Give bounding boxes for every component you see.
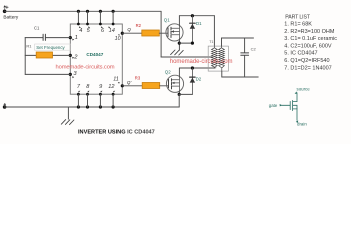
svg-text:11: 11 (113, 77, 119, 83)
wire: secondary top terminal (221, 38, 223, 46)
set frequency frame (35, 44, 71, 50)
battery negative terminal (3, 105, 7, 109)
node: rail junction pin12 (112, 105, 115, 108)
node: pin8 at IC edge (86, 93, 89, 96)
wire: Q2 source row to D2 (179, 93, 192, 95)
svg-text:C2: C2 (251, 46, 257, 51)
pin number 7 (77, 84, 81, 93)
transistor Q2 (IRF540) (166, 75, 183, 92)
part list (284, 14, 337, 71)
pin number 10 (115, 34, 121, 42)
wire: pin3 row (25, 73, 70, 75)
pinout body tap (293, 105, 297, 109)
wire: 0V rail (5, 106, 180, 108)
capacitor C2 (241, 53, 249, 55)
wire: Q' output row pin11 to R3 (122, 85, 142, 87)
node: D1 top junction (191, 14, 194, 17)
wire: R1 row left segment (25, 54, 36, 56)
svg-text:D1: D1 (196, 21, 202, 26)
svg-text:source: source (297, 87, 311, 92)
wire: pin 7 stub (77, 94, 79, 107)
pinout gate wire (282, 104, 291, 106)
node: pin6 at IC edge (99, 23, 102, 26)
svg-text:R3: R3 (135, 76, 141, 81)
ground (0V rail) (61, 120, 74, 125)
pinout drain label (296, 120, 308, 126)
svg-text:2. R2=R3=100 OHM: 2. R2=R3=100 OHM (284, 29, 335, 35)
node: pin14 at IC edge (112, 23, 115, 26)
pin number 11 (113, 77, 120, 84)
wire: Q output row pin10 to R2 (122, 32, 142, 34)
pin number 4 (79, 26, 83, 34)
wire: output bottom row (222, 76, 258, 78)
node: pin10 (121, 32, 124, 35)
node: D1 bottom junction (191, 42, 194, 45)
svg-text:5: 5 (87, 28, 91, 34)
resistor R1 (36, 52, 52, 58)
svg-text:1: 1 (75, 35, 78, 41)
svg-text:Set Frequency: Set Frequency (36, 45, 65, 50)
node: pin7 at IC edge (77, 93, 80, 96)
mosfet pinout diagram (282, 93, 298, 121)
svg-text:drain: drain (297, 121, 307, 126)
wire: C2 bottom stub (244, 56, 246, 77)
battery minus arrow (4, 103, 6, 106)
wire: left loop vertical (24, 38, 26, 75)
wire: Q1 source stub and ground drop (178, 40, 180, 50)
node: D2 top junction (191, 66, 194, 69)
pin number 14 (108, 26, 115, 34)
node: pin11 (121, 84, 124, 87)
node: pin12 at IC edge (112, 93, 115, 96)
wire: transformer primary top terminal (213, 16, 215, 46)
node: pin3 (69, 73, 72, 76)
svg-text:Q: Q (127, 27, 131, 32)
node: Q1 source junction (178, 42, 181, 45)
svg-text:Q': Q' (127, 80, 132, 85)
node: rail junction pin6 (99, 10, 102, 13)
wire: center tap feed to transformer primary mid (161, 56, 212, 58)
svg-text:gate: gate (269, 103, 278, 108)
pin number 6 (101, 26, 105, 34)
pin number 12 (108, 84, 115, 93)
node: Q2 source junction (178, 93, 181, 96)
wire: pin 8 stub (87, 94, 89, 107)
wire: Q2 source stub (178, 91, 180, 94)
svg-text:4. C2=100uF, 600V: 4. C2=100uF, 600V (284, 43, 332, 49)
diode D1 (190, 16, 195, 43)
svg-text:7. D1=D2= 1N4007: 7. D1=D2= 1N4007 (284, 65, 331, 71)
wire: pin 9 stub (99, 94, 101, 107)
pin number 9 (99, 84, 102, 93)
svg-text:10: 10 (115, 36, 121, 42)
transformer secondary winding (219, 46, 225, 71)
wire: output top row (222, 37, 254, 39)
svg-text:Q2: Q2 (165, 69, 171, 74)
svg-text:12: 12 (108, 84, 115, 90)
resistor R3 (142, 83, 160, 89)
wire: pin 12 stub (112, 94, 114, 107)
wire: +V rail drop to center-tap level (160, 11, 162, 57)
wire: +V rail from battery to corner (5, 10, 162, 12)
wire: secondary bottom terminal (221, 71, 223, 77)
svg-text:Q1: Q1 (164, 17, 170, 22)
diode D2 (190, 68, 195, 94)
svg-text:Battery: Battery (3, 14, 19, 19)
wire: pin 14 stub (112, 11, 114, 24)
node: rail junction pin9 (99, 105, 102, 108)
svg-text:6: 6 (101, 28, 105, 34)
wire: R2 to Q1 gate (159, 32, 168, 34)
node: rail junction pin7 (77, 105, 80, 108)
wire: Q2 drain row to transformer primary bottom (179, 67, 215, 69)
svg-text:4: 4 (79, 28, 82, 34)
svg-text:1. R1= 68K: 1. R1= 68K (284, 22, 312, 28)
pinout gate label (269, 103, 282, 108)
capacitor C1 (43, 34, 45, 40)
node: rail junction pin4 (77, 10, 80, 13)
svg-text:8: 8 (86, 84, 90, 90)
resistor R2 (142, 30, 160, 36)
pin number 5 (87, 26, 91, 34)
svg-text:14: 14 (109, 28, 115, 34)
wire: Q2 drain stub to drain row (178, 68, 180, 76)
pin number 3 (72, 71, 77, 78)
node: rail junction pin5 (86, 10, 89, 13)
battery positive terminal (3, 6, 7, 14)
svg-text:5. IC CD4047: 5. IC CD4047 (284, 51, 317, 57)
node: pin2 (69, 54, 72, 57)
pin number 2 (72, 55, 78, 61)
svg-text:2: 2 (73, 55, 78, 61)
wire: pin 6 stub (99, 11, 101, 24)
pinout drain lead (293, 109, 297, 121)
node: rail junction pin8 (86, 105, 89, 108)
pinout source lead (293, 93, 297, 102)
wire: R3 to Q2 gate (160, 85, 169, 87)
wire: Q1 drain stub to drain row (178, 16, 180, 25)
svg-text:6. Q1=Q2=IRF540: 6. Q1=Q2=IRF540 (284, 58, 329, 64)
transformer T1 box (208, 46, 228, 71)
svg-text:homemade-circuits.com: homemade-circuits.com (170, 59, 233, 65)
svg-text:3: 3 (73, 71, 77, 77)
svg-text:homemade-circuits.com: homemade-circuits.com (56, 65, 115, 71)
svg-text:3. C1= 0.1uF ceramic: 3. C1= 0.1uF ceramic (284, 36, 337, 42)
svg-text:INVERTER USING IC CD4047: INVERTER USING IC CD4047 (78, 130, 155, 136)
svg-text:C1: C1 (34, 26, 40, 31)
node: pin5 at IC edge (86, 23, 89, 26)
pin number 8 (86, 84, 90, 93)
node: rail junction pin14 (112, 10, 115, 13)
node: pin1 (69, 36, 72, 39)
svg-text:9: 9 (99, 84, 102, 90)
svg-text:7: 7 (77, 84, 81, 90)
pin number 1 (72, 35, 78, 41)
wire: C2 top stub (244, 38, 246, 53)
svg-text:CD4047: CD4047 (86, 52, 103, 57)
wire: pin 5 stub (87, 11, 89, 24)
wire: Q2 source drop to 0V rail (178, 94, 180, 107)
wire: C1 row from left loop to pin1 (25, 37, 70, 39)
pinout gate bar (289, 101, 291, 109)
svg-text:R2: R2 (136, 23, 142, 28)
transistor Q1 (IRF540) (166, 24, 183, 41)
pinout source label (295, 87, 311, 94)
wire: pin 4 stub (77, 11, 79, 24)
transformer primary winding (212, 46, 218, 68)
svg-text:R1: R1 (26, 44, 32, 49)
svg-text:T1: T1 (209, 40, 213, 44)
wire: Q1 source row (179, 42, 192, 44)
ground (Q1 source) (171, 50, 184, 55)
svg-text:PART LIST: PART LIST (285, 14, 311, 20)
pinout channel bar (292, 100, 294, 110)
IC U1 CD4047 body (70, 24, 122, 94)
node: pin9 at IC edge (99, 93, 102, 96)
wire: R1 row right segment to pin2 (53, 54, 71, 56)
wire: Q1 drain row to transformer primary top (179, 15, 214, 17)
svg-text:D2: D2 (196, 76, 202, 81)
wire: ground stub from 0V rail (67, 107, 69, 119)
battery plus sign (6, 6, 9, 9)
node: pin4 at IC edge (77, 23, 80, 26)
